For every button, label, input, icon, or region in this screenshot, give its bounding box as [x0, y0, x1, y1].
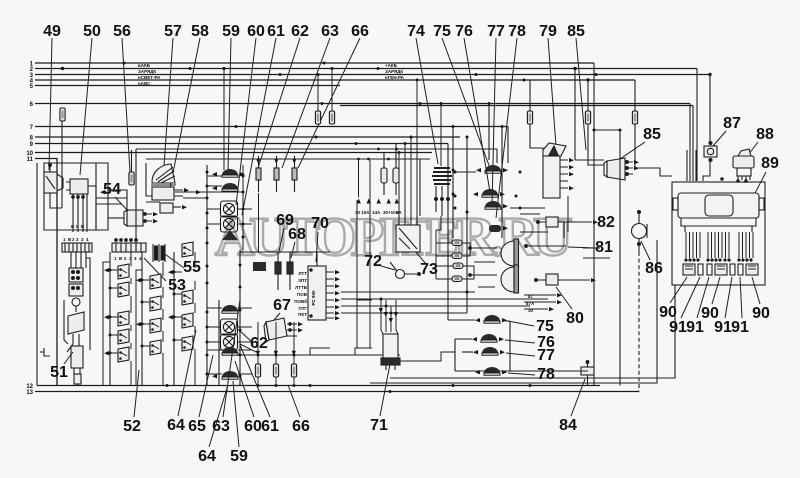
svg-text:59: 59 [222, 23, 240, 40]
connector 63a [274, 156, 279, 192]
svg-text:57: 57 [164, 23, 182, 40]
leader 74 [416, 38, 438, 164]
svg-text:+АКБ: +АКБ [385, 63, 398, 68]
wire headlamp feeds [469, 247, 497, 287]
leader 58 [170, 38, 200, 188]
component 89 fuse relay box outer [672, 182, 765, 285]
wire bus 11 [35, 159, 57, 386]
svg-text:52: 52 [123, 418, 141, 435]
leader 70 [316, 232, 318, 262]
switch col1 r5 [118, 347, 129, 362]
fuse F635 [632, 111, 637, 124]
lamp triangle 61 [222, 230, 238, 240]
component 52 connector strip [112, 239, 146, 252]
gauge 60b [221, 216, 238, 232]
component 85 windshield motor [604, 158, 633, 180]
wire coil74 feed [440, 104, 442, 167]
lamp 75b [484, 315, 500, 323]
wire drop x420 [419, 159, 421, 216]
wire bottom mid steps [240, 160, 372, 362]
ladder dots col1 [109, 269, 176, 355]
leader 51 [64, 352, 73, 364]
leader 69 [279, 228, 284, 252]
fuse markers row [355, 210, 403, 215]
junction line2 x62 [61, 67, 64, 70]
switch col1 r3 [118, 311, 129, 326]
component 79 washer tank [543, 143, 568, 198]
switch col3 r3 [182, 313, 193, 328]
svg-text:70: 70 [311, 215, 329, 232]
leader 84 [571, 379, 585, 416]
leader 54 [115, 197, 128, 211]
svg-text:85: 85 [567, 23, 585, 40]
svg-text:вАКБ: вАКБ [138, 63, 151, 68]
leader 62 a [239, 330, 253, 343]
component 86 clock [632, 224, 648, 239]
wire gauge connects [207, 176, 252, 374]
dots right box [452, 102, 504, 294]
arrow 75b l [475, 318, 480, 322]
svg-text:ЗАРЯДК: ЗАРЯДК [138, 69, 156, 74]
arrow 54 b [153, 219, 158, 223]
switch col1 r2 [118, 282, 129, 297]
wire 88 down [744, 180, 746, 183]
dots rail 240 [239, 264, 242, 378]
arrow 79 r3 [569, 172, 574, 176]
junction line2 x710 [708, 73, 711, 76]
wire left rail x96 [95, 163, 97, 230]
leader 91 a [681, 277, 700, 318]
leader 52 [134, 370, 139, 417]
leader 78 bottom [508, 373, 535, 375]
wire rating drops [358, 159, 360, 197]
svg-text:82: 82 [597, 214, 615, 231]
leader 59 bottom [233, 381, 239, 447]
leader 50 [80, 38, 92, 175]
arrows mid left a [100, 190, 105, 194]
leader 56 [122, 38, 130, 172]
svg-text:58: 58 [191, 23, 209, 40]
svg-text:55: 55 [183, 259, 201, 276]
arrow blob r [503, 226, 508, 230]
junction coil74 [440, 102, 443, 105]
component PC950 block [308, 266, 334, 320]
wire big box top a [136, 148, 497, 150]
svg-text:56: 56 [113, 23, 131, 40]
gauge 62c [221, 319, 238, 335]
wire 56 drop [131, 150, 133, 172]
dots rail 207 [206, 171, 209, 376]
leader 85 right [614, 142, 645, 163]
wire 81 row [524, 245, 566, 248]
arrow 79 r1 [569, 158, 574, 162]
svg-text:77: 77 [537, 347, 555, 364]
wire right small rows [520, 208, 610, 309]
component 74 ignition coil stack [432, 168, 452, 216]
dots 71 drops [380, 298, 393, 315]
wire link y130 [594, 129, 620, 131]
switch col1 r1 [118, 264, 129, 279]
wire bus 12 [37, 385, 600, 387]
symbol 3M hook [40, 348, 50, 356]
wire nested corner [400, 352, 455, 361]
svg-text:91: 91 [714, 319, 732, 336]
switch col2 r2 [150, 296, 161, 311]
lamp 78b [484, 367, 500, 375]
leader 61 [242, 38, 276, 215]
svg-text:72: 72 [364, 253, 382, 270]
leader 63 bottom [223, 300, 240, 417]
wire drop line5 right [529, 80, 531, 111]
component 90 connector a [683, 264, 695, 275]
junction 575 [573, 67, 576, 70]
fuse row b1 [255, 364, 260, 377]
leader 81 [568, 247, 596, 248]
svg-text:67: 67 [273, 297, 291, 314]
component 90 connector b [715, 264, 727, 275]
arrow 63a up [274, 159, 278, 164]
svg-text:нСВЕТ-РА: нСВЕТ-РА [138, 75, 161, 80]
leader 59 [228, 38, 231, 170]
wire fuse588 below [588, 124, 600, 165]
lamp 59c [222, 305, 238, 313]
wire 86 drop [638, 210, 641, 392]
dots lamp stubs [454, 171, 522, 210]
leader 77 [492, 38, 496, 204]
arrow lamp59a r [240, 172, 245, 176]
wire bus 10 [35, 152, 432, 154]
wire PC950 out2 [341, 298, 548, 300]
gauge 62d [221, 334, 238, 350]
resistor v1 [381, 153, 387, 196]
svg-text:87: 87 [723, 115, 741, 132]
wire mid vertical x207 [206, 165, 208, 386]
leader 60 [236, 38, 256, 205]
arrow 77a r [503, 204, 508, 208]
leader 62 [258, 38, 300, 168]
svg-text:76: 76 [455, 23, 473, 40]
component 91 connector b [707, 264, 712, 275]
svg-text:78: 78 [508, 23, 526, 40]
leader 90 b [712, 277, 720, 304]
arrow lamp59e l [212, 374, 217, 378]
wire right rows upper [510, 196, 568, 238]
PC950 arrows [335, 270, 340, 274]
arrows ladder a [104, 268, 173, 355]
lamp 75a [485, 165, 501, 173]
resistor r3 [453, 263, 463, 269]
leader 76 [464, 38, 490, 192]
svg-text:нГЕН-РА: нГЕН-РА [385, 75, 405, 80]
leader 68 [291, 242, 295, 258]
fuse F530 [527, 111, 532, 124]
fuse F588 [585, 111, 590, 124]
small lamp blob [489, 225, 501, 232]
component 49 horn relay [44, 172, 63, 193]
junction line4 x588 [586, 78, 589, 81]
svg-text:К: К [76, 224, 79, 229]
arrow 76b r [499, 337, 504, 341]
svg-text:49: 49 [43, 23, 61, 40]
wire big box left a [135, 149, 137, 250]
arrows mid left b [196, 190, 201, 194]
arrow 55b [182, 205, 187, 209]
leader 66 [298, 38, 360, 168]
component 50 stop switch [66, 179, 88, 232]
wire PC950 top bus [240, 251, 317, 253]
component 57 headlamp [151, 164, 176, 185]
switch col2 r3 [150, 318, 161, 333]
wire nested bottom y371 [455, 370, 588, 372]
wire F318 drop [317, 75, 319, 112]
svg-text:13: 13 [26, 390, 33, 396]
wire bus 6 [35, 103, 690, 105]
leader 64a [178, 330, 196, 416]
arrow 76a r [500, 192, 505, 196]
wire 71 drops from PC lines [381, 299, 396, 332]
leader 55 [162, 252, 184, 268]
component 89 comb wires [686, 232, 753, 258]
leader 86 [641, 241, 650, 260]
box left section [44, 163, 108, 230]
svg-text:61: 61 [261, 418, 279, 435]
lamp 76b [481, 334, 497, 342]
switch col3 r4 [182, 336, 193, 351]
svg-text:73: 73 [420, 261, 438, 278]
ladder rails [110, 252, 174, 386]
svg-text:50: 50 [83, 23, 101, 40]
arrows 71 feeds [379, 308, 398, 323]
connector 62a [256, 156, 261, 192]
wire drop x224 [223, 69, 225, 171]
svg-text:89: 89 [761, 155, 779, 172]
wire resistor net [436, 216, 474, 279]
fuse row dots [257, 354, 296, 388]
wire long vertical x620 [619, 130, 621, 386]
leader 53 [144, 258, 166, 281]
fuse row b2 [273, 364, 278, 377]
wire long vertical x675 [390, 285, 675, 378]
switch col1 r4 [118, 329, 129, 344]
arrow 78b r [502, 370, 507, 374]
svg-text:14А: 14А [372, 210, 381, 215]
wire PC950 out1 [341, 291, 475, 293]
svg-text:74: 74 [407, 23, 425, 40]
wire rail x243 [242, 165, 244, 250]
resistor r2 [452, 253, 462, 259]
lamp 59e [222, 371, 238, 379]
svg-text:65: 65 [188, 418, 206, 435]
switch col3 r2 [182, 290, 193, 305]
svg-text:62: 62 [250, 335, 268, 352]
svg-text:84: 84 [559, 417, 577, 434]
component 80 relay [534, 274, 590, 285]
arrow 76a l [473, 192, 478, 196]
svg-text:РС 950: РС 950 [311, 290, 316, 305]
lamp 76a [482, 189, 498, 197]
svg-text:85: 85 [643, 126, 661, 143]
wire bundle a [686, 150, 688, 181]
wire bus 4 [35, 79, 635, 81]
arrow lamp59b l [212, 186, 217, 190]
component 71 sensor [381, 334, 400, 370]
arrow 76b l [472, 337, 477, 341]
leader 91 c [725, 277, 732, 318]
wire drop line4 right [634, 80, 636, 111]
resistor r4 [452, 276, 462, 282]
leader 64b [209, 385, 228, 447]
wire 85 feeds [575, 160, 641, 168]
wire fuse588 drop [587, 80, 589, 111]
wire mid horizontals left [96, 192, 207, 204]
wire drop line1 right [593, 63, 595, 386]
leader 79 [548, 38, 556, 146]
wire 49 net [49, 121, 152, 230]
svg-text:ЛТТ: ЛТТ [298, 271, 307, 276]
connector 66a [292, 156, 297, 192]
leader 73 [405, 239, 426, 264]
svg-text:60: 60 [247, 23, 265, 40]
component 91 connector a [698, 264, 703, 275]
svg-text:75: 75 [536, 318, 554, 335]
leader 72 [381, 266, 395, 270]
switch col2 r1 [150, 274, 161, 289]
leader 71 bottom [380, 364, 390, 416]
wire PC950 out4 [341, 312, 467, 314]
leader 87 [713, 131, 726, 146]
svg-text:86: 86 [645, 260, 663, 277]
leader 88 [748, 142, 758, 155]
wire 71 feeds [381, 300, 398, 334]
wire 51 base drop [77, 384, 79, 386]
lamp 77a [485, 201, 501, 209]
wire rail x240 lower [239, 250, 241, 386]
PC950 row labels [294, 271, 308, 317]
arrow 85 out1 [634, 160, 639, 164]
wire mid bus y355 [240, 354, 400, 356]
wire bus 8 [35, 136, 460, 138]
svg-text:88: 88 [756, 126, 774, 143]
wire bus 9 [35, 143, 448, 145]
wire drop line4 below fuse [634, 124, 636, 163]
leader 57 [164, 38, 173, 166]
svg-text:75: 75 [433, 23, 451, 40]
wire right box verticals [453, 104, 508, 314]
component 88 ignition switch [733, 149, 754, 182]
wire drop line3 right [696, 69, 698, 182]
wire connector col drops [258, 193, 260, 252]
trapezoid switch top right [182, 242, 193, 257]
svg-text:30: 30 [528, 308, 534, 313]
component 89 connector row dots [684, 258, 752, 261]
svg-text:ПОВб: ПОВб [294, 298, 307, 304]
leader 76 bottom [505, 340, 535, 343]
arrow 77b r [500, 350, 505, 354]
wire lamp75a stubs [455, 171, 476, 173]
fuse F318 [315, 111, 320, 124]
wire bundle b [695, 150, 697, 181]
leader 60 bottom [235, 361, 254, 417]
component headlamp B [501, 265, 519, 293]
resistor v2 [393, 144, 399, 196]
svg-text:ЗАРЯДК: ЗАРЯДК [385, 69, 403, 74]
wire rail x219 lower [218, 300, 220, 386]
component 82 flasher [536, 217, 592, 227]
svg-text:62: 62 [291, 23, 309, 40]
fuse 56 [129, 172, 134, 185]
leader 67 [274, 313, 280, 320]
wire lamp box left edges [448, 144, 510, 372]
leader 90 c [752, 277, 760, 304]
wire left outer vertical [36, 163, 38, 386]
wire drop line6 right [689, 104, 691, 182]
svg-text:ПКТ: ПКТ [298, 312, 307, 317]
svg-text:64: 64 [198, 448, 216, 465]
gauge 60a [221, 201, 238, 217]
wire 73 drops [399, 80, 417, 216]
arrow 79 r4 [569, 186, 574, 190]
arrow 58 a [184, 188, 189, 192]
leader 78 [496, 38, 517, 218]
component 90 connector c [746, 264, 758, 275]
arrow 82 r [593, 220, 598, 224]
lamp 59d [222, 347, 238, 355]
fuse F49 [60, 108, 65, 121]
svg-text:79: 79 [539, 23, 557, 40]
component 55b small relay [160, 203, 181, 213]
component 72 switch [390, 262, 420, 279]
svg-text:5А: 5А [396, 210, 403, 215]
arrow row a [557, 293, 562, 297]
wire bus 2 [35, 68, 697, 70]
component 84 connector [581, 360, 594, 386]
svg-text:91: 91 [686, 319, 704, 336]
component headlamp A [501, 239, 519, 267]
lamp 77b [482, 347, 498, 355]
wire bus 1 [35, 62, 594, 64]
leader 75 bottom [508, 321, 534, 326]
leader 75 [442, 38, 490, 168]
lamp 59a [222, 169, 238, 177]
diode col a [275, 252, 281, 290]
svg-text:66: 66 [351, 23, 369, 40]
switch col2 r4 [150, 340, 161, 355]
svg-text:ЛТТБ: ЛТТБ [295, 285, 308, 290]
component 55 capacitor pair [153, 244, 165, 262]
component small fuse block mid [253, 262, 266, 271]
fuse marker arrows [357, 199, 399, 204]
fuse row b3 [291, 364, 296, 377]
fuse row wires [258, 322, 294, 386]
component 91 connector d [738, 264, 743, 275]
fuse F332 [329, 111, 334, 124]
arrow 78b l [475, 370, 480, 374]
svg-text:71: 71 [370, 417, 388, 434]
component 91 connector c [730, 264, 735, 275]
svg-text:61: 61 [267, 23, 285, 40]
svg-text:ЗПТ: ЗПТ [298, 278, 307, 283]
svg-text:91: 91 [731, 319, 749, 336]
arrow row c [549, 307, 554, 311]
wire washer drop x530 [530, 124, 543, 156]
wire box top b [146, 158, 430, 160]
wire PC950 top [317, 252, 330, 266]
component 67 sensor [264, 318, 297, 342]
arrow 85 out2 [634, 166, 639, 170]
arrow 62a up [256, 159, 260, 164]
wire drop line2 right [574, 69, 576, 161]
arrow 79 r2 [569, 165, 574, 169]
